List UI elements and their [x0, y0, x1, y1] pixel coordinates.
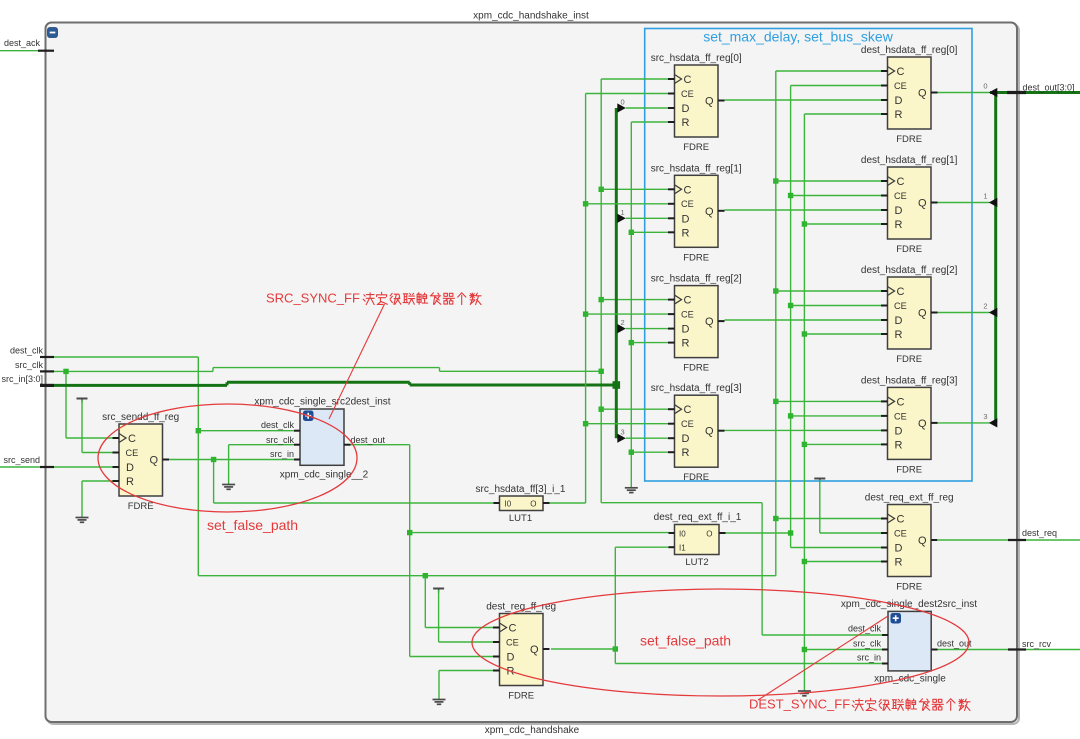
svg-text:FDRE: FDRE [683, 252, 709, 263]
svg-text:I0: I0 [505, 499, 512, 508]
svg-text:D: D [682, 433, 690, 445]
svg-text:CE: CE [894, 301, 907, 311]
svg-text:dest_out: dest_out [937, 638, 972, 648]
svg-text:src_rcv: src_rcv [1022, 639, 1051, 649]
port dest_req wire [938, 528, 1080, 540]
port src_rcv wire [938, 639, 1080, 650]
svg-text:2: 2 [621, 318, 625, 327]
ground tied to xpm_cdc_single__2 src_clk [222, 445, 295, 490]
svg-text:Q: Q [918, 198, 927, 210]
svg-text:src_send: src_send [3, 455, 40, 465]
svg-text:D: D [507, 652, 515, 664]
svg-text:src_in[3:0]: src_in[3:0] [1, 374, 43, 384]
svg-text:src_hsdata_ff_reg[1]: src_hsdata_ff_reg[1] [651, 163, 742, 174]
flip-flop dest_hsdata_ff_reg[2] (FDRE) [861, 265, 958, 365]
svg-text:src_in: src_in [270, 449, 294, 459]
svg-text:0: 0 [621, 98, 625, 107]
svg-text:dest_hsdata_ff_reg[2]: dest_hsdata_ff_reg[2] [861, 265, 958, 276]
annotation ellipse set_false_path (src side) [98, 404, 357, 512]
svg-text:CE: CE [681, 199, 694, 209]
junctions src_clk to src FF C pins [599, 79, 669, 412]
svg-text:0: 0 [983, 82, 987, 91]
svg-text:Q: Q [918, 535, 927, 547]
flip-flop dest_req_ext_ff_reg (FDRE) [865, 493, 954, 593]
wire dest_reg_ff Q to LUT2 I1 and dest2src src_in [551, 547, 883, 663]
svg-text:3: 3 [983, 412, 987, 421]
wire dest_clk net [54, 71, 776, 628]
svg-text:R: R [126, 476, 134, 488]
svg-text:xpm_cdc_single_src2dest_inst: xpm_cdc_single_src2dest_inst [254, 397, 390, 408]
annotation leader line DEST_SYNC_FF [758, 616, 888, 700]
power vcc for src_sendd_ff CE [77, 399, 114, 453]
svg-text:R: R [895, 329, 903, 341]
svg-text:R: R [895, 109, 903, 121]
svg-text:C: C [897, 396, 905, 408]
svg-text:FDRE: FDRE [683, 142, 709, 153]
port src_clk stub [15, 360, 54, 371]
svg-text:src_clk: src_clk [853, 638, 882, 648]
bus taps dest_out bits 0-3 [938, 82, 998, 428]
svg-text:D: D [895, 425, 903, 437]
bus src_in[3:0] [54, 108, 620, 438]
svg-text:D: D [126, 462, 134, 474]
power vcc for dest_reg_ff CE [433, 589, 494, 643]
svg-text:FDRE: FDRE [896, 244, 922, 255]
svg-text:CE: CE [506, 637, 519, 647]
svg-text:dest_ack: dest_ack [4, 38, 41, 48]
svg-text:R: R [682, 117, 690, 129]
flip-flop src_hsdata_ff_reg[1] (FDRE) [651, 163, 742, 263]
svg-text:D: D [682, 324, 690, 336]
svg-text:CE: CE [681, 89, 694, 99]
svg-text:FDRE: FDRE [508, 691, 534, 702]
wires src FF Q to dest FF D [725, 100, 883, 430]
svg-text:R: R [682, 447, 690, 459]
svg-text:dest_req: dest_req [1022, 528, 1057, 538]
wire src_sendd_ff Q to xpm src_in and LUT1 [168, 457, 494, 503]
power vcc for dest_req_ext_ff CE [814, 479, 882, 534]
svg-text:C: C [684, 184, 692, 196]
svg-text:R: R [895, 439, 903, 451]
ground / reset net for dest FFs [798, 114, 883, 696]
svg-text:set_false_path: set_false_path [640, 633, 731, 649]
svg-text:xpm_cdc_single__2: xpm_cdc_single__2 [280, 470, 369, 481]
svg-text:C: C [684, 295, 692, 307]
svg-text:src_hsdata_ff[3]_i_1: src_hsdata_ff[3]_i_1 [476, 484, 566, 495]
svg-text:Q: Q [705, 96, 714, 108]
wire LUT1 O to src FF CE distribution [549, 94, 586, 504]
svg-text:dest_req_ext_ff_reg: dest_req_ext_ff_reg [865, 493, 954, 504]
svg-text:CE: CE [894, 528, 907, 538]
svg-text:C: C [897, 286, 905, 298]
svg-text:D: D [895, 205, 903, 217]
svg-text:FDRE: FDRE [683, 363, 709, 374]
svg-text:Q: Q [918, 88, 927, 100]
svg-text:C: C [128, 433, 136, 445]
svg-text:C: C [897, 66, 905, 78]
flip-flop dest_hsdata_ff_reg[3] (FDRE) [861, 375, 958, 475]
ground and reset net for src FFs [625, 122, 669, 493]
flip-flop src_sendd_ff_reg (FDRE) [102, 412, 179, 512]
svg-text:src_clk: src_clk [266, 435, 295, 445]
svg-text:CE: CE [681, 419, 694, 429]
svg-text:Q: Q [705, 316, 714, 328]
svg-text:dest_out: dest_out [351, 435, 386, 445]
svg-text:Q: Q [918, 418, 927, 430]
port src_send wire [54, 466, 113, 468]
svg-text:C: C [684, 74, 692, 86]
svg-text:set_max_delay, set_bus_skew: set_max_delay, set_bus_skew [703, 29, 894, 45]
svg-text:1: 1 [983, 192, 987, 201]
bus taps src_in bits 0-3 [617, 98, 668, 443]
port dest_ack [0, 38, 54, 51]
annotation leader line SRC_SYNC_FF [329, 304, 385, 419]
svg-text:CE: CE [894, 81, 907, 91]
port src_in[3:0] stub [1, 374, 54, 385]
svg-text:C: C [509, 623, 517, 635]
svg-text:DEST_SYNC_FF: DEST_SYNC_FF [749, 697, 850, 712]
ground for dest_reg_ff R [433, 671, 495, 705]
svg-text:Q: Q [705, 206, 714, 218]
svg-text:I0: I0 [679, 529, 686, 538]
svg-text:D: D [895, 315, 903, 327]
svg-text:C: C [684, 404, 692, 416]
lut src_hsdata_ff[3]_i_1 (LUT1) [476, 484, 566, 524]
svg-text:dest_hsdata_ff_reg[3]: dest_hsdata_ff_reg[3] [861, 375, 958, 386]
svg-text:xpm_cdc_single_dest2src_inst: xpm_cdc_single_dest2src_inst [841, 599, 977, 610]
svg-text:C: C [897, 176, 905, 188]
svg-text:src_hsdata_ff_reg[2]: src_hsdata_ff_reg[2] [651, 274, 742, 285]
svg-text:dest_req_ext_ff_i_1: dest_req_ext_ff_i_1 [654, 512, 742, 523]
svg-text:D: D [682, 213, 690, 225]
flip-flop src_hsdata_ff_reg[2] (FDRE) [651, 274, 742, 374]
synchronizer U xpm_cdc_single_dest2src_inst [841, 599, 977, 685]
svg-text:src_in: src_in [857, 652, 881, 662]
svg-text:xpm_cdc_handshake_inst: xpm_cdc_handshake_inst [473, 11, 589, 22]
svg-text:dest_hsdata_ff_reg[0]: dest_hsdata_ff_reg[0] [861, 45, 958, 56]
svg-text:src_hsdata_ff_reg[3]: src_hsdata_ff_reg[3] [651, 383, 742, 394]
svg-text:dest_clk: dest_clk [261, 420, 295, 430]
svg-text:LUT1: LUT1 [509, 513, 532, 524]
svg-text:Q: Q [705, 426, 714, 438]
svg-text:FDRE: FDRE [896, 464, 922, 475]
svg-text:D: D [895, 95, 903, 107]
wire src2dest dest_out to dest_reg_ff D and LUT2 I0 [351, 445, 670, 657]
svg-text:R: R [895, 557, 903, 569]
svg-text:FDRE: FDRE [896, 582, 922, 593]
svg-text:FDRE: FDRE [128, 501, 154, 512]
junctions CE net to src FF CE pins [583, 94, 669, 427]
port src_send stub [0, 455, 54, 467]
wire LUT2 O / dest CE distribution [725, 86, 882, 548]
svg-text:FDRE: FDRE [896, 134, 922, 145]
svg-text:FDRE: FDRE [683, 472, 709, 483]
svg-text:dest_clk: dest_clk [10, 346, 44, 356]
constraint region set_max_delay, set_bus_skew [645, 29, 972, 482]
svg-text:src_hsdata_ff_reg[0]: src_hsdata_ff_reg[0] [651, 53, 742, 64]
port dest_clk stub [10, 346, 54, 358]
ground for src_sendd_ff R [76, 481, 114, 522]
synchronizer U xpm_cdc_single_src2dest_inst [254, 397, 390, 481]
svg-text:LUT2: LUT2 [685, 557, 708, 568]
svg-text:set_false_path: set_false_path [207, 517, 298, 533]
flip-flop src_hsdata_ff_reg[0] (FDRE) [651, 53, 742, 153]
flip-flop dest_hsdata_ff_reg[1] (FDRE) [861, 155, 958, 255]
bus dest_out[3:0] [990, 83, 1080, 423]
ground below constraint region [0, 0, 1, 1]
svg-text:Q: Q [150, 455, 159, 467]
svg-text:CE: CE [126, 448, 139, 458]
svg-text:O: O [530, 499, 536, 508]
svg-text:FDRE: FDRE [896, 354, 922, 365]
svg-text:R: R [895, 219, 903, 231]
flip-flop dest_reg_ff_reg (FDRE) [486, 602, 556, 702]
svg-text:CE: CE [681, 310, 694, 320]
annotation ellipse set_false_path (dest side) [472, 589, 969, 696]
svg-text:Q: Q [918, 308, 927, 320]
svg-text:D: D [895, 543, 903, 555]
lut dest_req_ext_ff_i_1 (LUT2) [654, 512, 742, 568]
svg-text:C: C [897, 514, 905, 526]
flip-flop src_hsdata_ff_reg[3] (FDRE) [651, 383, 742, 483]
svg-text:Q: Q [530, 644, 539, 656]
svg-text:R: R [682, 227, 690, 239]
junctions CE net to dest FF CE pins [788, 86, 882, 419]
svg-text:CE: CE [894, 411, 907, 421]
svg-text:src_clk: src_clk [15, 360, 44, 370]
flip-flop dest_hsdata_ff_reg[0] (FDRE) [861, 45, 958, 145]
svg-text:dest_out[3:0]: dest_out[3:0] [1023, 83, 1075, 93]
svg-text:R: R [682, 338, 690, 350]
svg-text:CE: CE [894, 191, 907, 201]
collapse (minus) icon [48, 28, 58, 38]
svg-text:3: 3 [621, 428, 625, 437]
svg-text:D: D [682, 103, 690, 115]
svg-text:dest_clk: dest_clk [848, 624, 882, 634]
svg-text:2: 2 [983, 302, 987, 311]
svg-text:O: O [706, 529, 712, 538]
svg-text:1: 1 [621, 208, 625, 217]
svg-text:SRC_SYNC_FF: SRC_SYNC_FF [266, 291, 360, 306]
wire src_clk net [54, 79, 883, 635]
svg-text:I1: I1 [679, 544, 686, 553]
junctions dest_clk to dest FF C pins [773, 71, 882, 521]
svg-text:dest_hsdata_ff_reg[1]: dest_hsdata_ff_reg[1] [861, 155, 958, 166]
svg-text:xpm_cdc_handshake: xpm_cdc_handshake [485, 725, 580, 736]
